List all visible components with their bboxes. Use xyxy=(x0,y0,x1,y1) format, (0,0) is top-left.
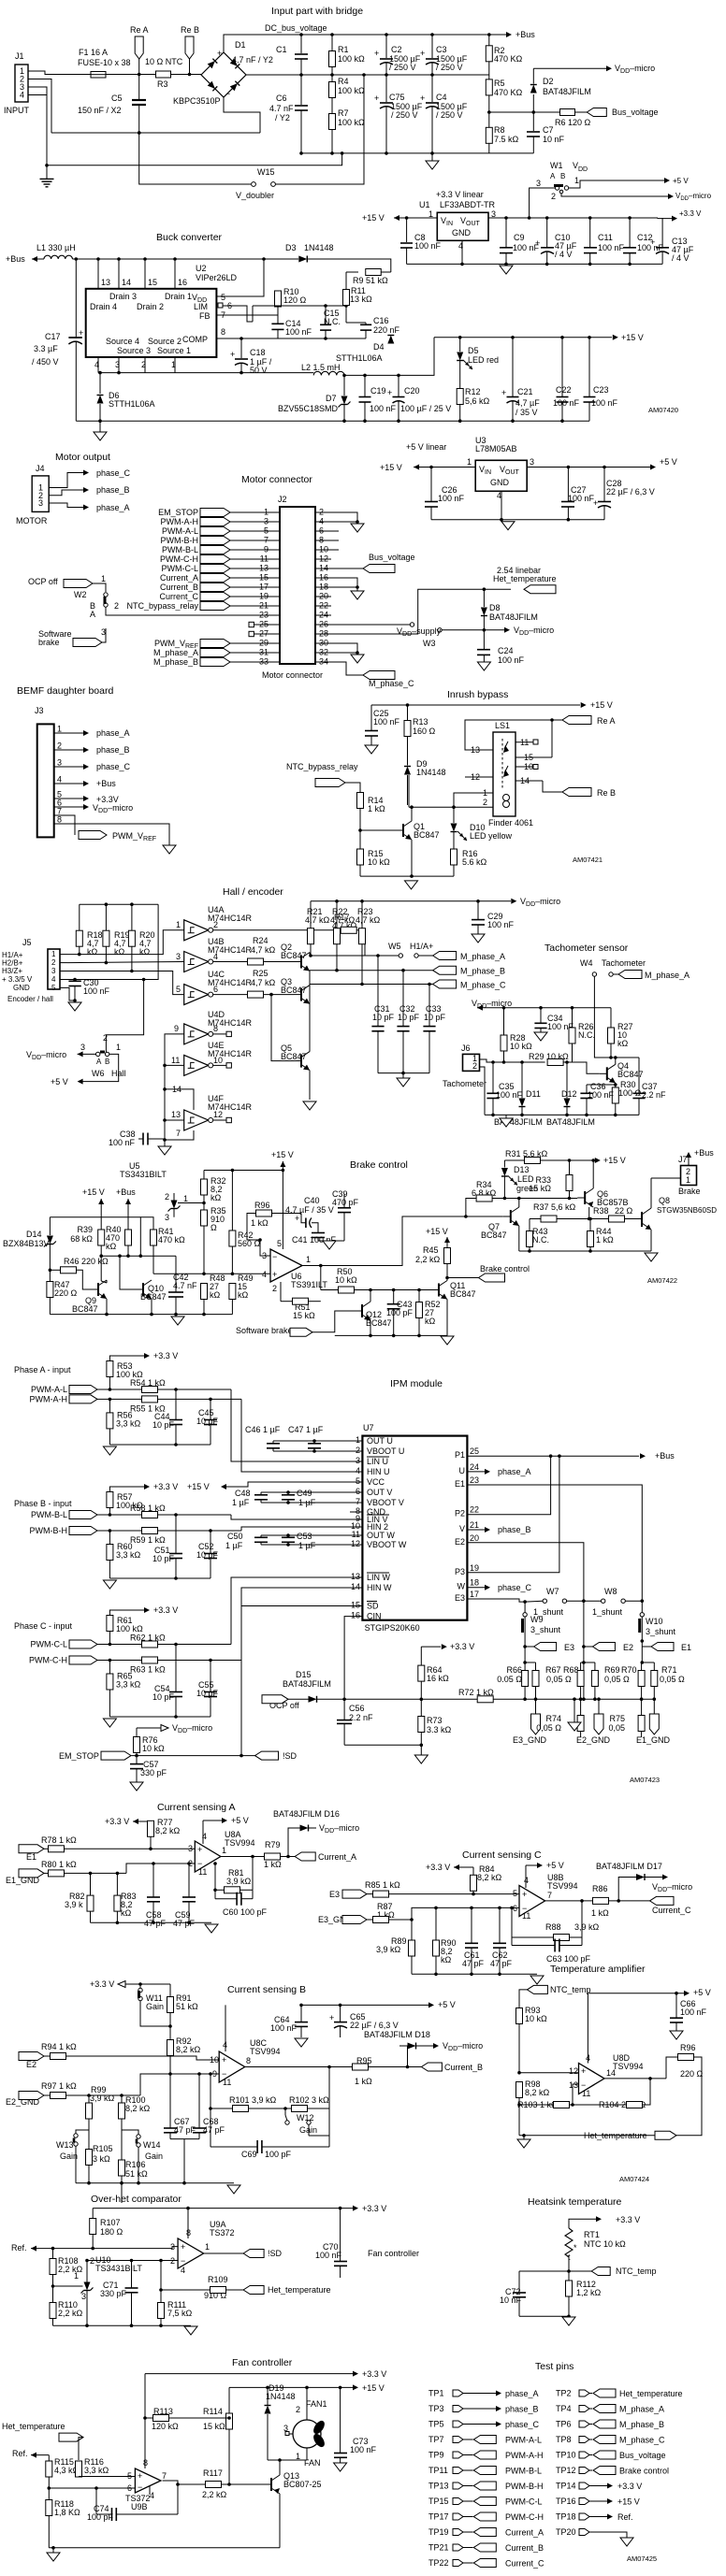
svg-text:BC847: BC847 xyxy=(450,1289,476,1299)
resistor R28 xyxy=(502,1006,506,1010)
wire in- net overhet xyxy=(87,2260,178,2262)
svg-text:kΩ: kΩ xyxy=(425,1317,436,1326)
svg-text:D4: D4 xyxy=(373,342,385,352)
wire top rail brake right xyxy=(504,1159,594,1161)
svg-text:N.C.: N.C. xyxy=(578,1030,595,1040)
ground temp amp xyxy=(523,2136,525,2139)
svg-text:phase_B: phase_B xyxy=(498,1525,531,1534)
svg-text:10 kΩ: 10 kΩ xyxy=(335,1275,357,1285)
svg-text:PWM-B-H: PWM-B-H xyxy=(505,2482,544,2491)
svg-text:2: 2 xyxy=(165,1192,169,1202)
resistor R14 xyxy=(345,783,360,793)
svg-text:+: + xyxy=(138,2471,142,2481)
svg-text:C18: C18 xyxy=(250,348,266,357)
svg-text:BAT48JFILM: BAT48JFILM xyxy=(546,1117,595,1127)
svg-text:11: 11 xyxy=(582,2089,590,2098)
svg-text:M_phase_A: M_phase_A xyxy=(645,971,690,980)
svg-text:D11: D11 xyxy=(526,1089,541,1099)
svg-text:1: 1 xyxy=(57,725,62,734)
wire ref to in+ xyxy=(93,2247,178,2249)
svg-text:R96: R96 xyxy=(680,2043,696,2052)
svg-text:kΩ: kΩ xyxy=(139,947,151,957)
svg-text:1 kΩ: 1 kΩ xyxy=(591,1908,609,1918)
wire fan cathode node xyxy=(268,2459,307,2461)
diode D9 xyxy=(404,767,411,775)
wire comp net bottom xyxy=(278,338,366,339)
svg-text:LED: LED xyxy=(517,1174,534,1184)
svg-text:2: 2 xyxy=(296,2405,300,2414)
svg-text:+: + xyxy=(295,1214,299,1223)
svg-text:4: 4 xyxy=(150,2491,154,2500)
wire Q7 emitter xyxy=(518,1226,520,1251)
svg-text:1 kΩ: 1 kΩ xyxy=(355,2077,372,2086)
svg-text:4: 4 xyxy=(524,1876,529,1885)
svg-text:4.7 nF: 4.7 nF xyxy=(269,104,294,113)
flag M_phase_A tacho xyxy=(613,973,618,975)
svg-text:22 µF / 6,3 V: 22 µF / 6,3 V xyxy=(606,487,655,496)
svg-text:+Bus: +Bus xyxy=(515,30,535,39)
svg-text:L78M05AB: L78M05AB xyxy=(475,444,517,453)
capacitor C30 xyxy=(73,978,77,982)
resistor R6 xyxy=(560,109,575,116)
wire EM_STOP to !SD xyxy=(132,1755,255,1757)
svg-text:+3.3 V: +3.3 V xyxy=(426,1863,450,1872)
svg-text:10 kΩ: 10 kΩ xyxy=(510,1042,532,1051)
wires J2 ground 3 xyxy=(331,643,357,655)
capacitor C11 xyxy=(588,216,592,220)
diode D2 xyxy=(532,94,534,112)
svg-text:0,05 Ω: 0,05 Ω xyxy=(660,1675,685,1684)
svg-text:/ 250 V: / 250 V xyxy=(391,110,418,120)
capacitor C45 xyxy=(209,1398,212,1402)
svg-text:C49: C49 xyxy=(297,1489,312,1498)
wire VDD rail hall xyxy=(311,900,511,902)
wire phase_C xyxy=(49,473,83,488)
svg-text:Drain 4: Drain 4 xyxy=(90,302,117,311)
svg-text:3,3 kΩ: 3,3 kΩ xyxy=(116,1550,141,1560)
svg-text:+: + xyxy=(420,49,425,58)
capacitor C31 xyxy=(376,954,380,957)
svg-text:STGW35NB60SD: STGW35NB60SD xyxy=(657,1206,717,1215)
svg-text:+: + xyxy=(522,1890,527,1899)
svg-text:1: 1 xyxy=(306,1255,311,1264)
svg-text:R69: R69 xyxy=(604,1665,620,1675)
svg-text:PWM-C-H: PWM-C-H xyxy=(505,2512,544,2522)
svg-text:100 kΩ: 100 kΩ xyxy=(338,86,365,95)
svg-text:PWM-C-H: PWM-C-H xyxy=(29,1656,67,1665)
svg-text:R96: R96 xyxy=(254,1201,270,1210)
svg-text:1N4148: 1N4148 xyxy=(416,768,446,777)
svg-text:E2: E2 xyxy=(623,1643,633,1652)
svg-text:J7: J7 xyxy=(678,1155,688,1164)
svg-text:Phase B - input: Phase B - input xyxy=(14,1499,72,1508)
svg-text:13: 13 xyxy=(171,1110,181,1119)
svg-text:AM07425: AM07425 xyxy=(627,2554,657,2563)
resistor R27 xyxy=(610,1008,612,1028)
capacitor C54 xyxy=(174,1643,178,1647)
svg-text:D15: D15 xyxy=(296,1670,312,1679)
wire shunt common bus xyxy=(421,1698,654,1700)
svg-text:+15 V: +15 V xyxy=(362,213,385,223)
svg-text:FUSE-10 x 38: FUSE-10 x 38 xyxy=(78,58,131,67)
svg-text:100 nF: 100 nF xyxy=(83,986,110,996)
svg-text:R9: R9 xyxy=(353,276,364,285)
wire J1 pins 3-4 to earth xyxy=(41,87,47,165)
resistor R19 xyxy=(105,904,107,930)
svg-text:2,2 kΩ: 2,2 kΩ xyxy=(415,1255,441,1264)
resistor R32 xyxy=(203,1171,205,1180)
svg-text:Tachometer sensor: Tachometer sensor xyxy=(544,943,629,954)
svg-text:5,6 kΩ: 5,6 kΩ xyxy=(465,396,490,406)
svg-text:R3: R3 xyxy=(157,79,168,89)
capacitor C18 xyxy=(240,337,243,340)
capacitor C24 xyxy=(483,630,485,649)
wire +15V rail fan xyxy=(229,2386,353,2388)
wire VDD_supply xyxy=(438,628,442,632)
svg-text:C7: C7 xyxy=(543,125,554,135)
svg-text:M_phase_A: M_phase_A xyxy=(153,648,198,657)
svg-text:1 kΩ: 1 kΩ xyxy=(596,1235,614,1245)
svg-text:OUT V: OUT V xyxy=(367,1488,392,1497)
flag PWM_V_REF pin 29 xyxy=(200,640,230,648)
svg-text:phase_A: phase_A xyxy=(96,503,130,512)
svg-text:1: 1 xyxy=(574,176,579,185)
svg-text:F1 16 A: F1 16 A xyxy=(79,48,108,57)
capacitor C58 xyxy=(152,1862,155,1865)
resistor R17 xyxy=(213,929,341,931)
capacitor C28 xyxy=(603,466,606,469)
svg-text:MOTOR: MOTOR xyxy=(16,516,48,525)
svg-text:E3: E3 xyxy=(455,1593,465,1603)
svg-text:NTC_temp: NTC_temp xyxy=(550,1985,591,1994)
svg-text:1: 1 xyxy=(183,1194,188,1203)
wire Q11 emitter xyxy=(446,1300,448,1336)
svg-text:2: 2 xyxy=(483,798,487,807)
wire Q9 emitter xyxy=(106,1299,108,1315)
svg-text:+15 V: +15 V xyxy=(380,463,402,472)
wire V phase_B xyxy=(467,1529,485,1531)
svg-text:3,9 kΩ: 3,9 kΩ xyxy=(574,1922,600,1932)
wire lower bus xyxy=(301,152,533,154)
svg-text:Brake: Brake xyxy=(678,1187,701,1196)
svg-text:R117: R117 xyxy=(203,2468,223,2478)
svg-text:TP17: TP17 xyxy=(428,2512,449,2522)
wire phase B to pins xyxy=(231,1515,363,1519)
svg-text:J3: J3 xyxy=(35,706,44,715)
svg-text:Ω: Ω xyxy=(211,1223,217,1232)
svg-text:V: V xyxy=(459,1524,465,1533)
svg-text:J2: J2 xyxy=(278,495,287,504)
svg-text:R80 1 kΩ: R80 1 kΩ xyxy=(41,1860,77,1869)
svg-text:U1: U1 xyxy=(419,200,430,209)
capacitor C69 xyxy=(211,2146,257,2148)
svg-text:P1: P1 xyxy=(455,1450,465,1460)
svg-text:100 pF: 100 pF xyxy=(265,2150,292,2159)
svg-text:4,7 kΩ: 4,7 kΩ xyxy=(251,945,276,955)
svg-text:47 pF: 47 pF xyxy=(490,1959,513,1968)
svg-text:kΩ: kΩ xyxy=(114,947,125,957)
svg-text:+: + xyxy=(650,237,655,247)
svg-text:Current_A: Current_A xyxy=(160,573,198,583)
svg-text:+: + xyxy=(374,94,379,103)
svg-text:10 pF: 10 pF xyxy=(152,1692,175,1702)
svg-text:kΩ: kΩ xyxy=(87,947,98,957)
svg-text:GND: GND xyxy=(490,478,510,487)
svg-text:TP21: TP21 xyxy=(428,2543,449,2553)
resistor R52 xyxy=(417,1288,421,1292)
capacitor C75 xyxy=(385,75,387,102)
svg-text:VBOOT V: VBOOT V xyxy=(367,1498,404,1507)
ground at lower bus xyxy=(431,153,433,161)
wire R115 to in- xyxy=(49,2487,135,2489)
svg-text:+3.3 V: +3.3 V xyxy=(153,1482,178,1491)
wire Q5 base feed xyxy=(269,993,273,997)
svg-text:13: 13 xyxy=(569,2080,578,2090)
svg-text:E1: E1 xyxy=(681,1643,691,1652)
svg-text:150 nF / X2: 150 nF / X2 xyxy=(78,106,122,115)
svg-text:7: 7 xyxy=(547,1891,552,1900)
svg-text:+3.3 V: +3.3 V xyxy=(679,209,702,218)
resistor R11 xyxy=(345,272,347,290)
svg-text:NTC_bypass_relay: NTC_bypass_relay xyxy=(286,762,358,771)
svg-text:R75: R75 xyxy=(609,1714,625,1723)
svg-text:C48: C48 xyxy=(235,1489,251,1498)
svg-text:3,9 k: 3,9 k xyxy=(65,1900,83,1909)
svg-text:P2: P2 xyxy=(455,1509,465,1518)
svg-text:2: 2 xyxy=(356,1446,360,1455)
svg-text:PWM-C-L: PWM-C-L xyxy=(162,564,199,573)
svg-text:3: 3 xyxy=(115,360,120,369)
svg-text:220 Ω: 220 Ω xyxy=(54,1288,78,1298)
wire feedback node xyxy=(213,1862,217,1865)
svg-text:+: + xyxy=(374,49,379,58)
wire phase_A xyxy=(49,503,83,508)
svg-text:BC847: BC847 xyxy=(281,951,307,960)
svg-text:LF33ABDT-TR: LF33ABDT-TR xyxy=(440,200,496,209)
svg-text:C40: C40 xyxy=(304,1196,320,1205)
svg-text:2: 2 xyxy=(272,1284,277,1293)
svg-text:Hall / encoder: Hall / encoder xyxy=(223,886,283,898)
svg-text:14: 14 xyxy=(122,278,131,287)
svg-text:PWM-B-L: PWM-B-L xyxy=(505,2467,542,2476)
svg-text:R88: R88 xyxy=(545,1922,561,1932)
svg-text:47 pF: 47 pF xyxy=(174,2125,196,2135)
svg-text:D8: D8 xyxy=(489,603,501,612)
svg-text:100 µF / 25 V: 100 µF / 25 V xyxy=(400,404,451,413)
capacitor C55 xyxy=(209,1659,212,1662)
wire U3 gnd rail xyxy=(501,491,502,519)
wire R3 to bridge xyxy=(171,74,202,76)
wire W15 net xyxy=(138,131,141,135)
svg-text:Current sensing C: Current sensing C xyxy=(462,1849,542,1861)
svg-text:3 kΩ: 3 kΩ xyxy=(93,2154,110,2164)
capacitor C3 xyxy=(431,35,433,58)
svg-text:Phase A - input: Phase A - input xyxy=(14,1365,71,1374)
svg-text:PWM-A-H: PWM-A-H xyxy=(161,517,199,526)
svg-text:M_phase_B: M_phase_B xyxy=(619,2420,664,2429)
flag PWM-A-H pin 3 xyxy=(200,518,230,526)
svg-text:TP6: TP6 xyxy=(556,2420,572,2429)
wire top bus to U2 drains xyxy=(72,258,264,260)
svg-text:TSV994: TSV994 xyxy=(547,1881,578,1891)
svg-text:C75: C75 xyxy=(389,93,405,102)
svg-text:M_phase_C: M_phase_C xyxy=(619,2436,665,2445)
svg-text:100 nF: 100 nF xyxy=(498,655,525,665)
svg-text:D3: D3 xyxy=(285,243,297,252)
svg-text:4: 4 xyxy=(94,360,99,369)
svg-text:3: 3 xyxy=(80,1043,85,1052)
svg-text:12: 12 xyxy=(213,1110,223,1119)
svg-text:+5 V: +5 V xyxy=(438,2000,456,2009)
svg-text:DC_bus_voltage: DC_bus_voltage xyxy=(265,23,327,33)
svg-text:TP2: TP2 xyxy=(556,2389,572,2398)
wire spare inputs xyxy=(165,1034,184,1146)
wire FB net xyxy=(239,306,253,322)
svg-text:2: 2 xyxy=(114,601,119,611)
svg-text:RT1: RT1 xyxy=(584,2230,600,2239)
svg-text:M_phase_B: M_phase_B xyxy=(460,967,505,976)
svg-text:*: * xyxy=(574,2243,577,2252)
svg-text:U9B: U9B xyxy=(131,2502,148,2511)
svg-text:2: 2 xyxy=(57,741,62,751)
svg-text:M_phase_A: M_phase_A xyxy=(460,952,505,961)
svg-text:6: 6 xyxy=(513,1904,517,1913)
resistor R16 xyxy=(453,832,455,849)
wire J1 pin2 down xyxy=(41,79,51,134)
svg-text:−: − xyxy=(181,2256,185,2266)
svg-text:AM07422: AM07422 xyxy=(647,1276,677,1285)
wire caps bottom hall xyxy=(378,1072,429,1074)
svg-text:47 pF: 47 pF xyxy=(173,1919,196,1928)
svg-text:4,7 kΩ: 4,7 kΩ xyxy=(251,978,276,987)
svg-text:kΩ: kΩ xyxy=(617,1039,629,1048)
wire DC bus top xyxy=(224,35,506,52)
svg-text:47 pF: 47 pF xyxy=(203,2125,225,2135)
svg-text:22 µF / 6,3 V: 22 µF / 6,3 V xyxy=(350,2021,399,2030)
svg-text:D5: D5 xyxy=(468,346,479,355)
capacitor C51 xyxy=(174,1513,178,1517)
flag PWM-B-H pin 7 xyxy=(200,537,230,545)
wire Q12 emitter xyxy=(370,1320,371,1335)
svg-text:Current_C: Current_C xyxy=(652,1906,691,1915)
gnd wire Phase B - input xyxy=(109,1577,211,1579)
svg-text:+: + xyxy=(329,2013,334,2022)
svg-text:C19: C19 xyxy=(370,386,386,396)
flag Re B inrush xyxy=(543,781,562,792)
svg-text:1,8 KΩ: 1,8 KΩ xyxy=(54,2508,80,2517)
wire phase A to pins xyxy=(231,1389,363,1461)
svg-text:TP10: TP10 xyxy=(556,2451,576,2460)
svg-text:3,3 kΩ: 3,3 kΩ xyxy=(84,2466,109,2475)
wire +15V rail inrush xyxy=(371,704,580,706)
svg-text:Het_temperature: Het_temperature xyxy=(584,2131,647,2140)
wire bridge bottom to return xyxy=(224,97,260,133)
svg-text:M_phase_C: M_phase_C xyxy=(460,981,506,990)
svg-text:E2: E2 xyxy=(26,2060,36,2069)
svg-text:7.5 kΩ: 7.5 kΩ xyxy=(494,135,519,144)
svg-text:5: 5 xyxy=(51,984,56,992)
svg-text:J4: J4 xyxy=(36,464,45,473)
svg-text:D2: D2 xyxy=(543,77,554,86)
jumper W10 3_shunt xyxy=(641,1601,643,1612)
wire LS1 pin12 xyxy=(465,776,472,778)
svg-text:C69: C69 xyxy=(241,2150,257,2159)
wire P1 +Bus xyxy=(467,1455,639,1457)
capacitor C63 xyxy=(512,1945,555,1947)
capacitor C15 xyxy=(325,306,327,324)
wire minus input net xyxy=(153,1273,270,1274)
svg-text:PWM-C-L: PWM-C-L xyxy=(31,1640,68,1649)
svg-text:W9: W9 xyxy=(530,1615,544,1624)
svg-text:R106: R106 xyxy=(125,2160,146,2169)
svg-text:R8: R8 xyxy=(494,125,505,135)
svg-text:R67: R67 xyxy=(545,1665,561,1675)
svg-text:15 kΩ: 15 kΩ xyxy=(203,2422,225,2431)
svg-text:E2: E2 xyxy=(455,1537,465,1547)
svg-text:Current_B: Current_B xyxy=(160,583,198,592)
svg-text:+5 V: +5 V xyxy=(660,457,677,467)
svg-text:Source 1: Source 1 xyxy=(157,346,191,355)
svg-text:FB: FB xyxy=(199,311,211,321)
svg-text:R68: R68 xyxy=(563,1665,579,1675)
svg-text:C21: C21 xyxy=(517,387,533,396)
wire het to R116 xyxy=(79,2438,83,2460)
svg-text:TP7: TP7 xyxy=(428,2435,444,2444)
svg-text:+: + xyxy=(181,2242,185,2252)
svg-text:PWM-A-L: PWM-A-L xyxy=(162,526,198,536)
capacitor C12 xyxy=(628,216,632,220)
svg-text:10 nF: 10 nF xyxy=(543,135,565,144)
svg-text:R114: R114 xyxy=(203,2407,223,2416)
svg-text:Motor connector: Motor connector xyxy=(241,474,312,485)
svg-text:220 nF: 220 nF xyxy=(373,325,400,335)
svg-text:PWM-B-L: PWM-B-L xyxy=(162,545,198,554)
svg-text:LIM: LIM xyxy=(194,302,208,311)
svg-text:INPUT: INPUT xyxy=(4,106,30,115)
svg-text:R46 220 kΩ: R46 220 kΩ xyxy=(64,1257,109,1266)
svg-text:3,9 kΩ: 3,9 kΩ xyxy=(90,2094,115,2103)
capacitor C17 xyxy=(75,257,79,261)
svg-text:1: 1 xyxy=(51,950,56,958)
svg-text:1_shunt: 1_shunt xyxy=(592,1607,623,1617)
svg-text:W6: W6 xyxy=(92,1069,105,1078)
ground tacho xyxy=(505,1115,507,1118)
svg-text:100 nF: 100 nF xyxy=(553,398,580,408)
svg-text:BEMF daughter board: BEMF daughter board xyxy=(17,685,113,697)
svg-text:VBOOT U: VBOOT U xyxy=(367,1446,404,1456)
wire U6 pin3 input xyxy=(260,1240,270,1256)
svg-text:B: B xyxy=(105,1058,109,1066)
wire brake divider node xyxy=(101,1255,176,1257)
flag PWM_V_REF J3 xyxy=(69,815,75,835)
wire U8D vcc xyxy=(587,1993,588,2064)
svg-text:3.3 kΩ: 3.3 kΩ xyxy=(427,1725,452,1734)
wire P2 xyxy=(467,1456,550,1515)
svg-text:U2: U2 xyxy=(196,264,207,273)
wire hall row2 xyxy=(67,962,184,963)
svg-text:16 kΩ: 16 kΩ xyxy=(427,1674,449,1683)
flag M_phase_C hall xyxy=(433,980,457,988)
svg-text:7: 7 xyxy=(356,1497,360,1506)
wire tacho gnd bus xyxy=(485,1114,639,1115)
svg-text:100 kΩ: 100 kΩ xyxy=(338,118,365,127)
wire J3 pin8 to gnd xyxy=(69,824,169,845)
wire P3 xyxy=(467,1456,559,1573)
svg-text:+15 V: +15 V xyxy=(603,1156,626,1165)
svg-text:470 kΩ: 470 kΩ xyxy=(158,1235,185,1245)
svg-text:W13: W13 xyxy=(56,2140,74,2150)
wire Q7 collector xyxy=(518,1199,520,1208)
